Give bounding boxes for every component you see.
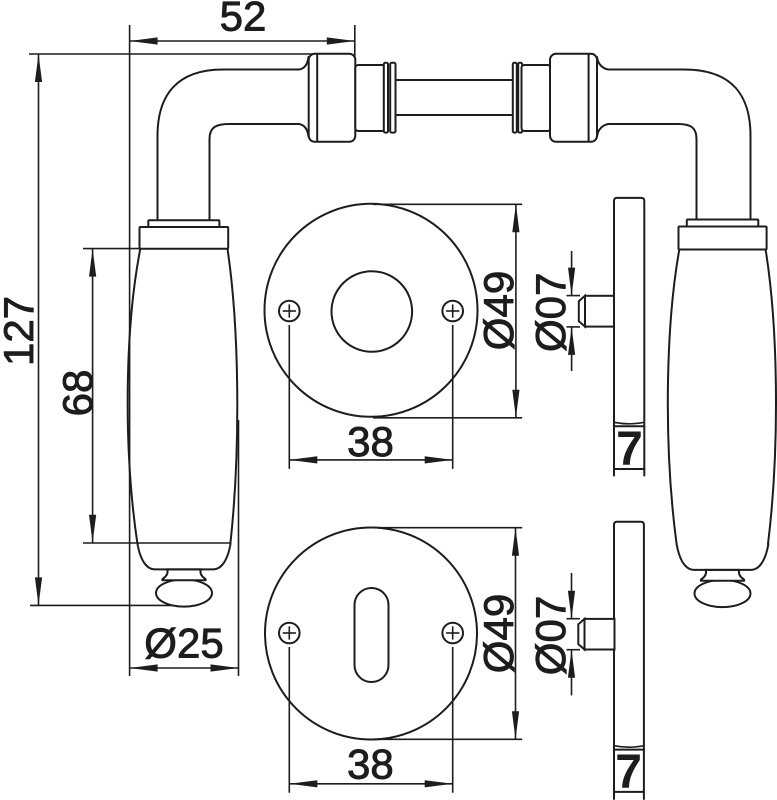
svg-text:Ø49: Ø49	[475, 594, 522, 673]
svg-text:7: 7	[616, 423, 643, 476]
svg-text:Ø07: Ø07	[527, 596, 574, 675]
svg-text:38: 38	[347, 741, 394, 788]
svg-text:7: 7	[615, 746, 642, 799]
svg-text:Ø07: Ø07	[527, 273, 574, 352]
svg-text:Ø49: Ø49	[475, 271, 522, 350]
svg-text:38: 38	[347, 418, 394, 465]
svg-text:68: 68	[54, 370, 101, 417]
svg-text:52: 52	[220, 0, 267, 40]
svg-text:127: 127	[0, 296, 42, 366]
svg-text:Ø25: Ø25	[144, 620, 223, 667]
